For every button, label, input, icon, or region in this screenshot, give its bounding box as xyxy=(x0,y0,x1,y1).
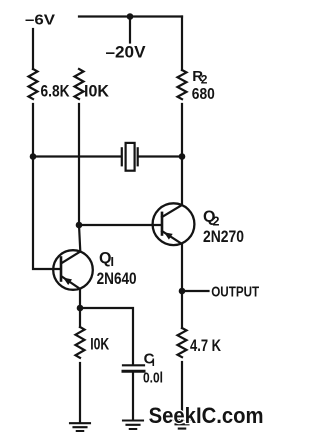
svg-text:–6V: –6V xyxy=(25,12,55,29)
crystal Y1 body rectangle xyxy=(126,143,135,171)
svg-text:I: I xyxy=(111,255,114,269)
ground under C1 xyxy=(123,421,143,430)
wire -20V supply stub xyxy=(129,17,131,43)
crystal Y1 right plate xyxy=(137,148,139,165)
svg-text:I0K: I0K xyxy=(84,82,110,101)
wire Q2 base lead from rail2 node xyxy=(79,224,161,226)
transistor Q2 base bar xyxy=(161,213,164,235)
svg-text:–20V: –20V xyxy=(106,43,147,62)
wire top bus from rail2 to R2 rail xyxy=(79,15,182,17)
wire rail2 node down to Q1 collector xyxy=(62,225,81,263)
ground under 10K bottom xyxy=(70,423,90,431)
svg-text:SeekIC.com: SeekIC.com xyxy=(149,403,264,428)
node junction dot crystal / Q2 collector xyxy=(179,153,186,160)
ground under 4.7K xyxy=(172,420,192,429)
transistor Q1 circle xyxy=(53,250,93,290)
wire C1 bottom to ground xyxy=(132,373,134,420)
crystal Y1 left plate xyxy=(121,148,123,165)
wire Q2 emitter down to output node xyxy=(162,231,182,291)
capacitor C1 bottom plate xyxy=(123,370,144,373)
resistor R 6.8K zigzag xyxy=(29,69,38,99)
resistor 10K top zigzag xyxy=(75,69,84,99)
svg-text:2N640: 2N640 xyxy=(97,269,137,288)
wire 4.7K to ground xyxy=(181,362,183,419)
capacitor C1 top plate xyxy=(123,364,144,366)
transistor Q2 emitter arrow xyxy=(164,232,173,239)
node junction dot -20V xyxy=(127,13,134,20)
resistor R2 680 zigzag xyxy=(178,70,187,99)
transistor Q1 base bar xyxy=(60,258,63,281)
svg-text:0.0l: 0.0l xyxy=(143,370,163,387)
transistor Q1 emitter arrow xyxy=(63,278,72,286)
svg-text:4.7 K: 4.7 K xyxy=(190,336,222,355)
svg-text:2N270: 2N270 xyxy=(203,227,244,246)
svg-text:I: I xyxy=(152,357,155,369)
wire output node to 4.7K xyxy=(181,291,183,328)
node junction dot rail2 / Q2 base xyxy=(76,222,83,229)
svg-text:OUTPUT: OUTPUT xyxy=(211,284,259,301)
wire rail2 below 10K down to Q2 base node xyxy=(78,104,80,226)
wire emitter node to C1 top xyxy=(80,308,133,364)
node junction dot left rail / crystal xyxy=(30,153,37,160)
wire crystal right lead to Q2 collector rail xyxy=(139,155,182,157)
svg-text:6.8K: 6.8K xyxy=(41,82,71,101)
node junction dot OUTPUT xyxy=(179,288,186,295)
wire -6V supply stub xyxy=(32,29,34,69)
resistor 10K bottom zigzag xyxy=(76,327,85,358)
wire left rail below 6.8K down to Q1 base lead xyxy=(33,104,60,269)
transistor Q2 circle xyxy=(153,203,195,245)
svg-text:2: 2 xyxy=(201,73,208,87)
svg-text:I0K: I0K xyxy=(90,335,110,354)
wire R2 top lead xyxy=(181,17,183,71)
wire emitter node to bottom 10K xyxy=(79,308,81,327)
node junction dot Q1 emitter xyxy=(77,305,84,312)
wire bottom 10K to ground xyxy=(79,363,81,422)
resistor 4.7K zigzag xyxy=(178,328,187,357)
wire R2 bottom lead down to Q2 collector xyxy=(162,104,182,217)
wire OUTPUT stub xyxy=(182,290,209,292)
wire Q1 emitter down to emitter node xyxy=(62,277,80,309)
svg-text:680: 680 xyxy=(192,86,215,103)
wire crystal left lead from left rail xyxy=(33,155,121,157)
